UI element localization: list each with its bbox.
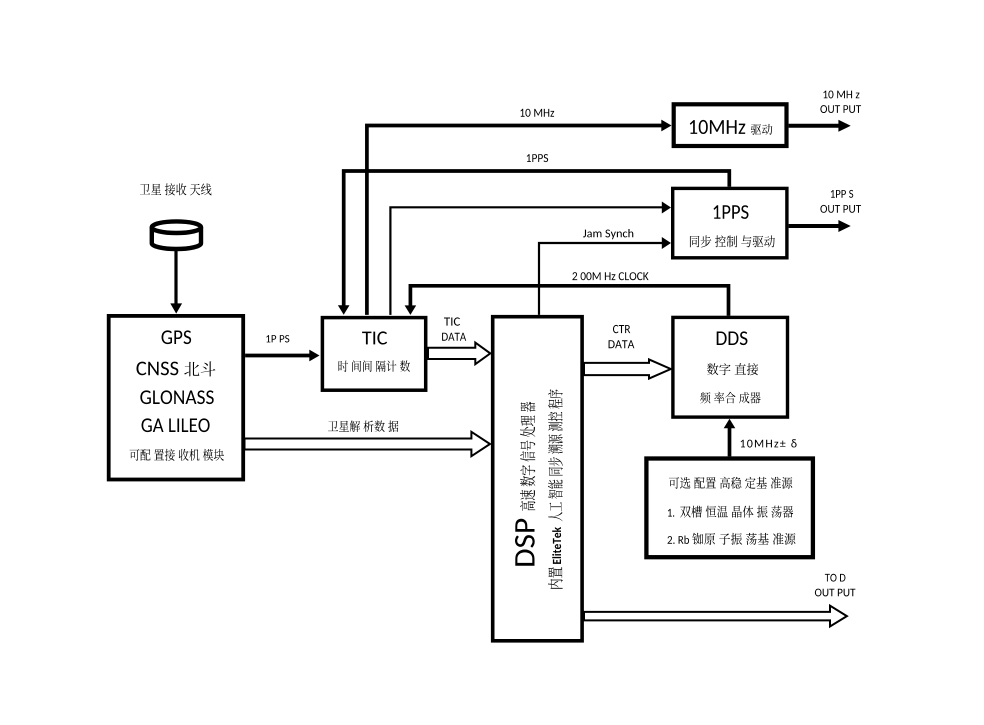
GPS box text CNSS BeiDou — [136, 361, 215, 376]
wire 10MHz reference from source box to DDS — [728, 428, 732, 456]
GPS box text configurable receiver module — [130, 449, 224, 461]
label Jam Synch — [583, 229, 633, 239]
reference box text line2 — [668, 506, 793, 518]
antenna ANT1 satellite receiver antenna symbol — [152, 221, 201, 249]
label OUTPUT (1pps) — [820, 205, 861, 213]
bus TOD output from DSP — [584, 606, 847, 627]
label DATA (tic) — [442, 333, 466, 341]
bus CTR DATA from DSP to DDS — [584, 359, 671, 378]
label satellite receiving antenna — [140, 183, 212, 195]
wire GPS 1PPS output to TIC — [245, 354, 310, 358]
label TIC (data) — [444, 317, 460, 325]
DDS direct digital synthesizer box U4 — [673, 317, 788, 417]
GPS box text GLONASS — [140, 390, 213, 404]
label 10 MHz on wire — [520, 109, 554, 117]
wire 10MHz output from driver box — [789, 124, 839, 128]
GPS box text GALILEO — [142, 418, 210, 432]
DSP box rotated title word DSP — [515, 519, 535, 566]
DSP digital signal processor box U3 — [493, 317, 582, 641]
wire 10MHz from TIC to 10MHz driver — [367, 126, 663, 315]
optional high stability reference source box U7 — [646, 459, 813, 558]
TIC time interval counter box U2 — [322, 318, 425, 391]
TIC box text time interval counting — [338, 360, 410, 372]
10MHz driver box U5 — [674, 104, 787, 146]
DSP box rotated subtitle word EliteTek — [552, 527, 561, 564]
1PPS sync control and driver box U6 — [673, 188, 787, 257]
label 10 MHz output line1 — [823, 91, 859, 99]
GPS receiver module box U1 — [109, 316, 244, 480]
1PPS box text sync control and drive — [690, 235, 775, 247]
wire 1PPS feedback from 1PPS driver to TIC input — [344, 171, 730, 307]
wire antenna to GPS receiver — [174, 250, 177, 306]
bus TIC DATA from TIC to DSP — [428, 343, 490, 365]
wire Jam Synch from DSP to 1PPS sync box — [539, 243, 663, 315]
wire 1PPS output from sync box — [789, 224, 839, 228]
10MHz driver box text — [690, 120, 773, 135]
label OUTPUT (10mhz) — [820, 105, 861, 113]
GPS box title text GPS — [162, 330, 192, 344]
wire TIC output to 1PPS sync box — [390, 207, 662, 315]
reference box text line1 — [669, 477, 792, 489]
label satellite parsed data — [328, 421, 398, 433]
bus satellite parsed data from GPS to DSP — [245, 432, 491, 456]
label 1PPS on feedback wire — [527, 154, 548, 162]
DDS box title text — [717, 331, 748, 345]
TIC box title text — [362, 331, 387, 344]
label DATA (ctr) — [609, 340, 635, 348]
DSP box rotated subtitle text AI sync tracing control program — [548, 389, 563, 521]
DSP box rotated title text high speed digital signal processor — [520, 402, 535, 511]
reference box text line3 — [667, 533, 795, 545]
1PPS box title text — [713, 205, 748, 219]
label OUTPUT (tod) — [815, 589, 856, 597]
DDS box text frequency synthesizer — [700, 392, 760, 404]
label CTR (data) — [613, 325, 630, 333]
label 200MHz CLOCK — [572, 272, 648, 280]
label 1PPS on GPS-TIC wire — [266, 335, 289, 343]
wire 200MHz clock from DDS to TIC — [410, 286, 728, 316]
label 1PPS output line1 — [831, 190, 853, 198]
DSP box rotated subtitle word neizhi — [548, 567, 563, 589]
DDS box text digital direct — [707, 363, 758, 375]
label 10MHz plus-minus delta — [741, 439, 797, 447]
label TOD — [825, 574, 846, 582]
